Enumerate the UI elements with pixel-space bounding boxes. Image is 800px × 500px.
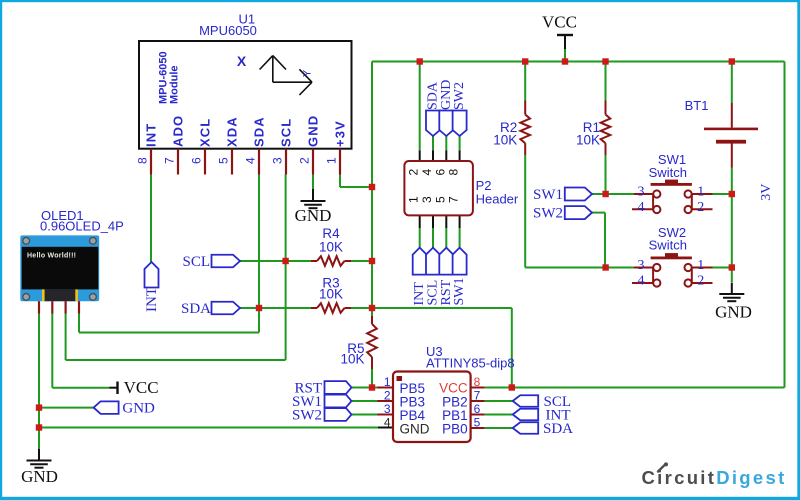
wire VCC symbol stem [564,36,566,62]
svg-text:X: X [237,53,247,69]
U1 pin 5 XDA [217,116,240,174]
svg-text:2: 2 [697,200,704,215]
svg-text:1: 1 [407,196,421,203]
wire OLED pin1 GND vertical [38,313,40,449]
junction SW1 right [729,191,735,197]
svg-text:2: 2 [384,389,391,403]
svg-text:10K: 10K [319,287,343,302]
junction SDA col [256,305,262,311]
svg-text:Module: Module [169,66,181,105]
node SW2 flag above P2 [452,82,467,136]
svg-text:8: 8 [447,169,461,176]
OLED1 board [20,235,99,301]
U1 module text [158,51,181,104]
junction GND flag row [36,404,42,410]
svg-text:4: 4 [638,200,645,215]
wire P2 pin4 flag [432,136,434,161]
wire SW1 pin2 stub [692,208,713,210]
junction rail P2 [417,58,423,64]
junction R5 bottom [369,384,375,390]
wire GND flag row [39,407,94,409]
U1 reference label [238,12,255,27]
svg-text:10K: 10K [493,133,517,148]
svg-text:2: 2 [407,169,421,176]
resistor R2 [493,115,530,148]
node SCL flag [182,254,240,270]
node SCL flag U3 [513,394,571,410]
svg-text:GND: GND [295,206,332,225]
wire SW2 pin1 [692,267,732,269]
resistor R1 [576,115,610,148]
junction U3 VCC [509,384,515,390]
ground battery [715,283,752,322]
svg-text:5: 5 [433,196,447,203]
junction SW2 row [602,264,608,270]
U1 pin 3 SCL [271,118,294,175]
svg-text:Switch: Switch [649,238,687,253]
node SDA flag U3 [513,421,573,437]
svg-text:3: 3 [420,196,434,203]
svg-text:XDA: XDA [225,116,240,147]
wire P2 pin7 bottom [459,215,461,247]
svg-text:1: 1 [325,157,339,164]
wire P2 pin8 flag [459,136,461,161]
svg-text:5: 5 [474,416,481,430]
junction SCL col [282,258,288,264]
OLED1 pin 1 [38,301,40,313]
wire U3 pin5 to SDA flag [471,427,513,429]
resistor R5 [340,316,376,369]
svg-text:10K: 10K [576,133,600,148]
svg-text:7: 7 [163,157,177,164]
U1 pin 7 ADO [163,115,186,175]
wire SW2 flag to switch [592,213,653,268]
svg-text:+3V: +3V [333,120,348,147]
wire MPU +3V to VCC line [340,175,372,188]
resistor R3 [317,276,345,313]
CircuitDigest logo [642,462,787,488]
svg-text:6: 6 [474,402,481,416]
P2 pin numbers 8/7 [447,169,461,204]
power VCC top [542,13,577,36]
wire SW2 row to U3 [352,414,394,416]
junction +3V [369,184,375,190]
svg-text:SW2: SW2 [452,82,467,110]
wire MPU INT to flag [150,175,152,263]
wire OLED pin3 SCL [65,313,67,360]
svg-text:VCC: VCC [124,378,159,397]
svg-text:6: 6 [433,169,447,176]
svg-text:4: 4 [638,274,645,289]
U3 right pin numbers [474,375,481,430]
svg-text:Header: Header [476,192,519,207]
svg-text:SDA: SDA [181,301,211,317]
svg-text:1: 1 [697,258,704,273]
svg-text:3V: 3V [759,184,774,201]
IC U3 body (ATTINY85) [393,372,471,443]
svg-text:SW2: SW2 [292,408,322,424]
wire P2 pin3 bottom [432,215,434,247]
node SW2 flag U3 [292,408,352,424]
wire battery bottom [731,143,733,194]
junction rail R1 [602,58,608,64]
OLED1 pin 4 [78,301,80,313]
wire battery top [731,62,733,128]
U1 pin 2 GND [298,115,321,175]
wire SW1 row to U3 [352,400,394,402]
wire MPU GND stub [312,175,314,202]
svg-text:MPU6050: MPU6050 [199,23,257,38]
svg-text:2: 2 [298,157,312,164]
OLED1 pin 3 [64,301,66,313]
wire SW1 pin1 to battery line [692,193,732,195]
svg-text:10K: 10K [340,352,364,367]
wire U3 pin8 stub [471,387,485,389]
wire VCC drop x511 [511,308,513,388]
svg-text:3: 3 [271,157,285,164]
svg-text:XCL: XCL [198,118,213,147]
svg-text:1: 1 [384,375,391,389]
junction SW2 right [729,264,735,270]
OLED1 pin 2 [51,301,53,313]
node RST flag [294,381,351,397]
svg-text:4: 4 [384,416,391,430]
P2 reference label [476,178,519,207]
wire U3 pin8 VCC row [485,387,785,389]
svg-text:INT: INT [144,287,160,312]
svg-text:VCC: VCC [439,381,468,396]
U1 axis arrows [260,56,314,95]
ground MPU [295,190,332,226]
wire P2 pin5 bottom [445,215,447,247]
node SDA flag above P2 [426,81,441,136]
wire U3 pin7 to SCL flag [471,400,513,402]
switch SW1 [638,180,705,215]
svg-text:8: 8 [136,157,150,164]
junction rail BT1 [729,58,735,64]
svg-text:ADO: ADO [171,115,186,147]
ground OLED [21,449,58,486]
P2 pin numbers 4/3 [420,169,434,204]
wire P2 pin1 bottom [419,215,421,247]
svg-text:CircuitDigest: CircuitDigest [642,467,787,488]
node RST flag below P2 [439,248,454,306]
svg-text:5: 5 [217,157,231,164]
svg-text:Y: Y [302,69,314,77]
wire R1 bottom [605,143,607,194]
wire RST row [352,387,394,389]
U3 labels [426,344,515,371]
U1 pin 6 XCL [190,118,213,175]
wire SDA row [240,307,512,309]
wire GND row to U3 [39,427,393,429]
wire OLED pin2 VCC [52,313,117,388]
transistor SW1 labels (switch) [649,152,687,180]
wire VCC right drop [784,62,786,388]
svg-text:INT: INT [144,123,159,147]
node SW2 flag [533,206,592,222]
svg-text:SCL: SCL [279,118,294,147]
svg-text:4: 4 [420,169,434,176]
node INT flag [144,262,160,312]
svg-text:4: 4 [244,157,258,164]
battery BT1 [704,128,758,144]
power VCC OLED [118,378,159,397]
svg-text:GND: GND [715,303,752,322]
wire SW1 pin4 stub [632,208,653,210]
OLED1 labels [40,208,124,234]
svg-text:Switch: Switch [649,165,687,180]
svg-text:8: 8 [474,375,481,389]
wire U3 pin6 to INT flag [471,414,513,416]
svg-text:7: 7 [447,196,461,203]
junction R4 right [369,258,375,264]
switch SW2 [638,253,705,288]
wire SCL row [240,260,373,262]
node SCL flag below P2 [426,248,441,306]
U3 right pin names [439,381,468,437]
node INT flag U3 [513,408,571,424]
svg-text:GND: GND [400,422,430,437]
wire MPU SDA vertical [79,175,259,333]
junction GND row [36,424,42,430]
battery BT1 label [685,98,709,113]
junction rail VCC [562,58,568,64]
wire battery line to SW2 row [731,194,733,268]
node SW1 flag [533,187,592,203]
svg-text:SCL: SCL [182,254,210,270]
svg-text:2: 2 [697,274,704,289]
U1 value label MPU6050 [199,23,257,38]
P2 pin numbers 6/5 [433,169,447,204]
wire R2 bottom to SW2 row [525,143,605,267]
svg-text:SDA: SDA [252,116,267,147]
node INT flag below P2 [412,248,427,306]
svg-text:7: 7 [474,389,481,403]
node GND flag [94,401,155,417]
wire VCC top rail [372,61,785,63]
U1 X axis label [237,53,247,69]
junction rail R2 [522,58,528,64]
svg-text:GND: GND [122,401,155,417]
svg-text:PB0: PB0 [442,422,468,437]
wire VCC vertical x372 upper [371,62,373,317]
svg-text:GND: GND [21,467,58,486]
svg-text:3: 3 [384,402,391,416]
svg-text:3: 3 [638,185,645,200]
svg-text:6: 6 [190,157,204,164]
connector P2 body [404,161,473,215]
junction SW1 row [602,191,608,197]
U3 left pin names [400,381,430,437]
wire P2 pin6 flag [445,136,447,161]
op-amp U1 body (MPU6050 box) [139,41,352,149]
wire SW1 flag to switch [592,193,653,195]
wire VCC vertical x372 lower [371,369,373,388]
wire SW2 pin4 stub [632,282,653,284]
svg-text:SW1: SW1 [452,278,467,306]
svg-text:3: 3 [638,258,645,273]
P2 pin numbers 2/1 [407,169,421,204]
svg-text:SDA: SDA [543,421,573,437]
junction R3 right [369,305,375,311]
svg-text:SW2: SW2 [533,206,563,222]
wire MPU SCL vertical [66,175,286,361]
wire OLED pin4 SDA [78,313,80,333]
wire P2 pin2 from rail [419,62,421,162]
node SDA flag [181,301,240,317]
svg-text:0.96OLED_4P: 0.96OLED_4P [40,219,124,234]
svg-text:GND: GND [306,115,321,147]
wire SW2 pin2 stub [692,282,713,284]
transistor SW2 labels (switch) [649,225,687,253]
svg-text:Hello World!!!: Hello World!!! [27,253,76,260]
battery 3V label [759,184,774,201]
svg-text:1: 1 [697,185,704,200]
node SW1 flag U3 [292,394,352,410]
U1 pin 8 INT [136,123,159,175]
svg-text:VCC: VCC [542,13,577,32]
wire R2 top [524,62,526,115]
resistor R4 [317,226,345,266]
svg-text:BT1: BT1 [685,98,709,113]
U1 pin 4 SDA [244,116,267,174]
node SW1 flag below P2 [452,248,467,306]
U3 left pin numbers [384,375,391,430]
svg-text:ATTINY85-dip8: ATTINY85-dip8 [426,356,515,371]
wire R1 top [605,62,607,115]
svg-text:10K: 10K [319,240,343,255]
wire SW2 to ground [731,268,733,283]
node GND flag above P2 [439,80,454,136]
U1 pin 1 +3V [325,120,348,174]
svg-text:SW1: SW1 [533,187,563,203]
